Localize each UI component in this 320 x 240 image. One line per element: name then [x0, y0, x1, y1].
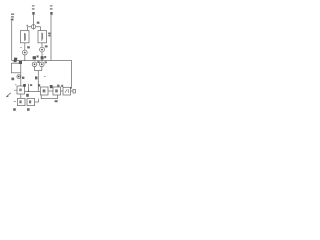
wire merge — [35, 70, 42, 72]
mixer U1 — [31, 25, 35, 29]
wire PD3 down — [34, 67, 36, 71]
box G3 — [63, 87, 71, 95]
label right of PD2 — [45, 45, 48, 47]
feedback under chain — [41, 95, 57, 99]
label above F1 — [14, 60, 22, 64]
label above G2 — [57, 85, 59, 87]
box G1 — [41, 87, 49, 95]
wire G1-G2 — [48, 90, 53, 92]
wire LD1 to PD1 — [24, 43, 26, 50]
element inside LD2 — [41, 33, 43, 41]
input arrow — [6, 93, 10, 97]
inductor inside LD1 — [23, 33, 25, 41]
wire PD2 to rail — [41, 52, 43, 61]
wire LD2 to PD2 — [41, 43, 43, 47]
box LD2 — [38, 31, 47, 43]
attachment on wire — [17, 75, 21, 79]
label right of PD3 — [37, 61, 39, 63]
label near drop junction — [38, 84, 40, 86]
node VIN label — [11, 14, 14, 21]
box LD1 — [21, 31, 30, 43]
wire left supply drop — [11, 21, 13, 61]
label right of mixer — [37, 22, 40, 24]
box B2 — [27, 98, 35, 105]
wire G2-G3 — [61, 90, 64, 92]
label M1 — [33, 55, 39, 59]
value label inside G2 — [55, 89, 58, 92]
box B1 — [17, 98, 25, 105]
box filter F1 — [11, 63, 20, 73]
junction rail to G3 — [70, 87, 71, 88]
wire into A1 left — [14, 89, 17, 91]
value label inside G1 — [43, 89, 46, 92]
label right of wire — [22, 77, 24, 79]
output load — [71, 90, 74, 92]
label between G1 G2 — [50, 85, 53, 88]
label top-right A1 — [23, 84, 26, 87]
label under feedback — [55, 100, 58, 102]
wire mixer left — [28, 27, 32, 31]
tick right — [44, 76, 46, 78]
wire PD1 to rail — [24, 55, 26, 61]
glyph inside A1 — [19, 89, 22, 92]
tick left of B1 — [14, 101, 16, 103]
label right of PD1 — [27, 46, 30, 48]
label right of LD2 — [48, 33, 50, 37]
wire A1 to B1 — [20, 94, 22, 98]
node VB1 label — [32, 5, 35, 15]
value label inside B2 — [29, 100, 31, 103]
label M3 — [35, 76, 37, 79]
wire F1 right edge down — [20, 73, 22, 86]
node VB2 label — [50, 5, 53, 15]
tick top-left A1 — [15, 84, 16, 86]
photodiode PD3 — [32, 62, 37, 67]
rail wire — [12, 61, 72, 89]
wire PD4 down — [41, 67, 43, 71]
label M2 — [41, 56, 47, 59]
box G2 — [53, 87, 61, 95]
label right of PD4 — [45, 61, 47, 63]
label left of attachment — [11, 78, 14, 81]
box A1 — [17, 86, 25, 94]
label under B2 — [27, 108, 30, 111]
label under B1 — [13, 108, 16, 111]
wire mixer vertical — [33, 15, 35, 30]
value label inside B1 — [19, 100, 21, 103]
value label inside G3 — [65, 89, 67, 92]
label above G3 — [61, 85, 63, 87]
photodiode PD1 — [22, 50, 27, 55]
wire mixer right — [36, 27, 41, 31]
junction dots on rail — [24, 60, 25, 61]
wire B2 right — [35, 99, 39, 102]
wire merged drop — [37, 71, 39, 92]
wire branch x28.5 — [28, 84, 30, 92]
photodiode PD4 — [40, 62, 45, 67]
wire right supply drop — [50, 15, 52, 61]
label 1b — [26, 94, 29, 97]
label above branch — [30, 84, 32, 86]
plus mark — [26, 25, 28, 27]
photodiode PD2 — [40, 47, 45, 52]
tick left of PD1 — [20, 47, 22, 49]
label on rail left — [14, 58, 17, 61]
wire A1 to chain — [25, 91, 41, 93]
